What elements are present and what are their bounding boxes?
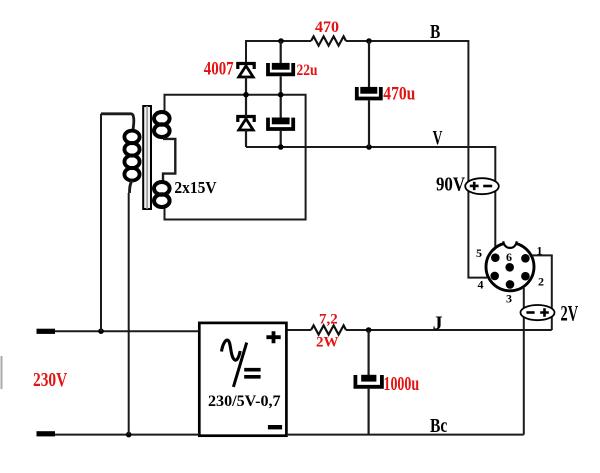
node: C1/C2 junction bbox=[278, 92, 284, 98]
svg-text:B: B bbox=[430, 21, 440, 43]
socket pin 2 dot bbox=[521, 272, 530, 281]
socket pin 6 dot (center) bbox=[505, 263, 514, 272]
tube socket X1 bbox=[486, 241, 534, 290]
voltmeter M1 90V bbox=[465, 178, 499, 194]
diode D1 1N4007 (cathode bar with end ticks, triangle up) bbox=[238, 64, 254, 95]
wire: V rail and right drop to socket top bbox=[246, 147, 495, 247]
node: C1 top junction bbox=[278, 38, 284, 44]
capacitor C2 22u (second of stack) bbox=[268, 95, 293, 147]
wire: socket pin 2 down through 2V meter crossing J rail to Bc rail bbox=[523, 287, 525, 435]
svg-text:4: 4 bbox=[478, 278, 484, 292]
transformer T1 primary winding bbox=[101, 114, 140, 193]
svg-text:22u: 22u bbox=[297, 62, 318, 79]
terminal: 230V phase (top bar) bbox=[37, 329, 56, 334]
socket pin 4 dot bbox=[490, 272, 499, 281]
diode D2 1N4007 (cathode bar with end ticks, triangle up) bbox=[238, 95, 254, 147]
svg-text:7,2: 7,2 bbox=[319, 312, 338, 328]
wire: primary bottom lead bbox=[128, 193, 130, 435]
node: primary bottom junction bbox=[126, 432, 132, 438]
node: primary top junction bbox=[98, 328, 104, 334]
capacitor C4 1000u bbox=[355, 330, 382, 435]
svg-text:230/5V-0,7: 230/5V-0,7 bbox=[208, 393, 281, 410]
svg-text:2W: 2W bbox=[316, 335, 339, 351]
svg-text:2: 2 bbox=[538, 275, 544, 289]
svg-text:1000u: 1000u bbox=[384, 373, 420, 395]
node: R2/C4 junction on J rail bbox=[366, 327, 372, 333]
svg-text:4007: 4007 bbox=[204, 59, 234, 80]
resistor R1 470 bbox=[311, 36, 346, 45]
wire: 230V top lead to power supply bbox=[55, 330, 199, 332]
capacitor C3 470u bbox=[357, 41, 381, 147]
svg-text:5: 5 bbox=[476, 246, 482, 260]
terminal: 230V neutral (bottom bar) bbox=[37, 431, 56, 436]
voltmeter M2 2V bbox=[521, 305, 555, 320]
svg-text:470: 470 bbox=[315, 19, 339, 36]
svg-text:3: 3 bbox=[506, 292, 512, 306]
socket pin 1 dot bbox=[521, 254, 530, 263]
transformer T1 secondary winding (2x15V, two halves with step) bbox=[154, 112, 175, 207]
scan artifact line (left edge) bbox=[1, 356, 3, 389]
svg-text:470u: 470u bbox=[383, 84, 415, 105]
node: D1/D2 junction bbox=[243, 92, 249, 98]
svg-text:2x15V: 2x15V bbox=[174, 178, 216, 197]
svg-text:90V: 90V bbox=[436, 173, 465, 195]
svg-text:6: 6 bbox=[506, 250, 512, 264]
capacitor C1 22u (plus plate filled, cup below) bbox=[268, 41, 293, 95]
wire: row B (diode midpoint / cap midpoint / secondary top, loop around to secondary bottom) bbox=[165, 95, 306, 220]
power supply U1 box 230/5V-0,7 bbox=[199, 323, 286, 436]
node: C2 bottom junction bbox=[278, 144, 284, 150]
svg-text:V: V bbox=[433, 127, 443, 149]
socket pin 5 dot bbox=[491, 253, 500, 262]
socket pin 3 dot bbox=[506, 280, 515, 289]
wire: J rail from power supply to corner bbox=[286, 329, 551, 331]
svg-text:2V: 2V bbox=[561, 300, 579, 325]
wire: socket pin 1 to J rail corner bbox=[532, 255, 552, 330]
wire: Bc bottom rail bbox=[55, 434, 524, 436]
svg-text:230V: 230V bbox=[33, 369, 68, 391]
resistor R2 7,2 2W bbox=[311, 325, 346, 334]
node: C3 bottom junction bbox=[366, 144, 372, 150]
svg-text:J: J bbox=[433, 313, 443, 335]
node: C3 470u top junction bbox=[366, 38, 372, 44]
transformer T1: core bbox=[143, 106, 151, 209]
svg-text:Bc: Bc bbox=[430, 415, 447, 437]
wire: primary top lead up bbox=[100, 114, 102, 331]
wire: top rail B (row A) with corner above D1 and right drop to 90V meter and socket pin 4 bbox=[246, 41, 487, 278]
